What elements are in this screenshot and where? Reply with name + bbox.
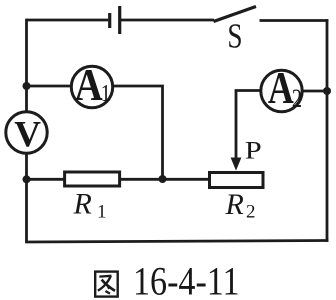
wire A1 down to R1-R2 node <box>113 86 163 179</box>
svg-text:1: 1 <box>97 202 107 223</box>
voltmeter V <box>6 112 47 153</box>
caption figure number 16-4-11 <box>133 260 240 300</box>
wire left side lower <box>25 153 28 242</box>
svg-text:16-4-11: 16-4-11 <box>133 260 240 300</box>
wire R1 to R2 <box>120 178 211 181</box>
svg-text:2: 2 <box>292 85 302 114</box>
label A1 <box>75 60 111 111</box>
label R1 <box>73 188 107 223</box>
svg-text:R: R <box>225 188 244 221</box>
wire A2 to slider corner <box>235 89 261 92</box>
caption 图 glyph <box>95 272 118 297</box>
resistor R1 <box>65 172 120 186</box>
wire switch contact to top-right corner <box>260 19 329 22</box>
label S <box>227 16 242 55</box>
svg-text:A: A <box>75 60 103 111</box>
svg-text:A: A <box>268 62 294 113</box>
ammeter A1 <box>71 66 112 107</box>
svg-text:S: S <box>227 16 242 55</box>
wire top-left segment <box>27 19 109 22</box>
node junction A2-right wire <box>323 87 331 95</box>
svg-text:P: P <box>245 137 262 165</box>
svg-text:2: 2 <box>246 202 256 223</box>
label R2 <box>225 188 256 223</box>
wire to R1 <box>27 178 67 181</box>
ammeter A2 <box>261 70 302 111</box>
wire bottom <box>25 241 328 243</box>
svg-text:R: R <box>73 188 92 221</box>
node junction left-R1 <box>23 175 31 183</box>
node junction R1-A1 <box>159 175 167 183</box>
svg-text:V: V <box>14 114 41 155</box>
wire battery to switch <box>121 19 214 22</box>
battery negative plate <box>108 13 111 28</box>
wire to ammeter A1 <box>27 85 73 88</box>
wire left side upper <box>25 19 28 112</box>
svg-text:1: 1 <box>101 79 111 106</box>
battery positive plate <box>118 6 121 34</box>
slider arrow P <box>231 91 242 171</box>
switch S blade <box>214 7 257 22</box>
label P <box>245 137 262 165</box>
label A2 <box>268 62 302 114</box>
wire A2 to right side <box>302 90 327 93</box>
wire right side <box>326 19 329 242</box>
rheostat R2 <box>210 173 264 188</box>
node junction to A1 branch <box>23 82 31 90</box>
